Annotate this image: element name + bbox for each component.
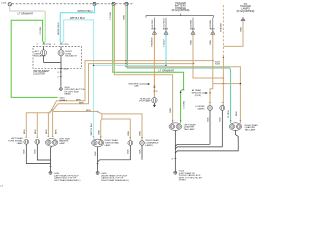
- high mount stoplamp note: [128, 83, 150, 88]
- trailer dashed wire: [222, 5, 224, 57]
- cyan branch wire: [94, 64, 167, 66]
- svg-text:WHT/LT BLU: WHT/LT BLU: [78, 9, 93, 13]
- wire lt grn/wht vertical: [44, 11, 45, 44]
- svg-text:BRN: BRN: [236, 111, 238, 116]
- svg-text:BRN: BRN: [24, 129, 26, 134]
- wire cluster internal: [44, 63, 61, 69]
- middle bulb feed 2: [102, 119, 130, 140]
- wire trailer lamp feed: [223, 21, 243, 46]
- wire brn feed: [125, 5, 127, 66]
- svg-text:S426: S426: [215, 64, 221, 66]
- svg-text:BRN: BRN: [139, 131, 141, 136]
- svg-text:BRN: BRN: [76, 99, 81, 101]
- wire orange HMSL: [153, 34, 155, 97]
- ground wire left oval: [174, 130, 176, 171]
- svg-text:WHT/LT BLU: WHT/LT BLU: [70, 16, 85, 20]
- ground wire license merge 2: [175, 147, 222, 149]
- svg-text:LEFT REARQUARTERTAIL LAMP: LEFT REARQUARTERTAIL LAMP: [184, 123, 196, 131]
- HMSL ground arrow: [153, 103, 156, 107]
- splice triangle S3: [190, 19, 196, 34]
- svg-text:LICENSELAMPS: LICENSELAMPS: [195, 106, 205, 110]
- svg-text:BRN: BRN: [190, 40, 192, 45]
- ground G406: [49, 171, 52, 174]
- svg-text:LT GRN: LT GRN: [40, 26, 42, 34]
- rotated labels mid bulbs: [128, 131, 142, 136]
- wire stub t4: [212, 18, 214, 31]
- junction dots link: [223, 77, 241, 84]
- wire stub t2: [165, 18, 167, 31]
- svg-text:WHT/LT BLU: WHT/LT BLU: [91, 123, 93, 136]
- pin ticks lamp entries: [26, 102, 242, 138]
- bulb mid 1: [128, 141, 133, 146]
- bulb left rear 1: [24, 139, 29, 144]
- svg-text:C126: C126: [1, 3, 7, 5]
- wire lt grn to right tail: [128, 5, 231, 123]
- bulb HIGH MOUNT STOPLAMP: [152, 98, 157, 103]
- svg-text:BLK: BLK: [24, 149, 26, 154]
- connector symbol on rail at x=126.5: [125, 2, 128, 5]
- svg-text:BLK: BLK: [207, 117, 209, 122]
- oval feed 2: [52, 111, 54, 136]
- svg-text:BLK: BLK: [220, 117, 222, 122]
- svg-text:TRAILER: TRAILER: [220, 23, 223, 32]
- wire wht/lt blu inner: [61, 20, 93, 140]
- tan rail C: [126, 67, 240, 124]
- svg-text:LT GRN: LT GRN: [228, 110, 230, 118]
- ground wire license merge 1: [175, 144, 210, 146]
- svg-text:BRN: BRN: [170, 108, 172, 113]
- wire stub t3: [192, 18, 194, 31]
- wire tan cross link: [213, 83, 240, 85]
- svg-text:BRN: BRN: [123, 15, 125, 20]
- bulb RIGHT TURN INDICATOR: [58, 47, 64, 63]
- wire lt grn branch: [11, 20, 57, 97]
- connector C220 left: [37, 44, 52, 46]
- bulb mid 2: [140, 141, 145, 146]
- leader wire from left connector: [10, 6, 45, 11]
- svg-text:140 ORG: 140 ORG: [152, 19, 154, 28]
- junction dot dashed: [223, 57, 225, 59]
- splice tick: [58, 72, 62, 74]
- connector symbol on rail at x=94.5: [93, 2, 96, 5]
- rotated BLK labels left: [24, 149, 37, 154]
- svg-text:BLK: BLK: [35, 149, 37, 154]
- splice triangle S5: [241, 17, 245, 20]
- trailer bracket: [146, 14, 214, 18]
- middle oval feeds: [98, 112, 102, 140]
- svg-text:BRN: BRN: [210, 40, 212, 45]
- wire lt blu t2: [165, 34, 167, 65]
- tick on license wire: [209, 92, 211, 94]
- svg-text:LT BLU: LT BLU: [163, 39, 165, 47]
- bulb LEFT TURN INDICATOR: [41, 47, 47, 63]
- connector C220 right: [54, 44, 69, 46]
- trailer solid wire: [222, 57, 224, 105]
- wire tan t3 license feed: [193, 34, 223, 78]
- rotated labels mid oval: [91, 123, 100, 136]
- license ground wires: [210, 110, 222, 146]
- wire wht/lt blu outer: [60, 5, 94, 43]
- rotated BLK labels mid: [95, 149, 141, 156]
- wire cluster ground: [60, 69, 62, 87]
- svg-text:WHT/LT BLU: WHT/LT BLU: [58, 22, 60, 35]
- rotated labels left lamps: [24, 129, 57, 134]
- middle bulb feed 1: [102, 114, 142, 140]
- oval feed 1: [48, 111, 50, 136]
- svg-text:BRN: BRN: [46, 129, 48, 134]
- wire brn to left tail: [114, 5, 172, 123]
- left combo oval lamp: [46, 139, 58, 147]
- junction dots rails: [125, 60, 213, 67]
- svg-text:C220: C220: [63, 69, 69, 71]
- wire tan t4 license feed: [210, 34, 213, 105]
- splice tick mid ground: [97, 163, 99, 165]
- distribution wire: [26, 110, 52, 137]
- svg-text:LT GRN: LT GRN: [184, 100, 186, 108]
- svg-text:BRN: BRN: [98, 130, 100, 135]
- svg-text:BLK: BLK: [128, 149, 130, 154]
- svg-text:BLK: BLK: [95, 151, 97, 156]
- ground G400: [59, 88, 62, 91]
- connector symbol on rail (left): [8, 2, 11, 5]
- svg-text:LT GRN/WHT: LT GRN/WHT: [159, 68, 175, 72]
- svg-text:141 BRN: 141 BRN: [190, 19, 192, 28]
- svg-text:C220: C220: [46, 44, 52, 46]
- splice triangle S2: [163, 18, 169, 34]
- splice tick left ground: [50, 165, 52, 167]
- rotated BLK labels license: [207, 117, 221, 122]
- bulb left rear 2: [35, 139, 40, 144]
- svg-text:RED/BLK: RED/BLK: [152, 37, 154, 47]
- top dashed rail: [12, 3, 134, 5]
- connector symbol on rail at x=113.5: [112, 2, 115, 5]
- splice triangle S4: [210, 19, 216, 34]
- svg-text:57 LT BLU: 57 LT BLU: [163, 18, 165, 28]
- wire lt grn to left tail: [113, 5, 184, 123]
- svg-text:C220: C220: [63, 44, 69, 46]
- left rear quarter tail lamp: [169, 123, 182, 131]
- ground G409: [96, 171, 99, 174]
- stack labels: [76, 99, 91, 112]
- svg-text:BRN: BRN: [240, 27, 242, 32]
- splice dot green: [180, 90, 185, 94]
- svg-text:LT GRN: LT GRN: [110, 11, 112, 19]
- svg-text:LT GRN/WHT: LT GRN/WHT: [18, 11, 34, 15]
- tan rail A: [52, 61, 213, 110]
- svg-text:BRN: BRN: [55, 129, 57, 134]
- pin tick: [58, 77, 62, 79]
- svg-text:BRN: BRN: [35, 129, 37, 134]
- instrument cluster dashed box: [33, 47, 82, 69]
- bulb license 1: [208, 105, 213, 110]
- tan rail B: [53, 64, 194, 111]
- right rear quarter tail lamp: [229, 123, 242, 131]
- svg-text:BLK: BLK: [139, 149, 141, 154]
- splice text at rail A junction: [215, 62, 221, 66]
- splice triangle S1: [151, 19, 157, 34]
- splice tick orange: [153, 91, 158, 93]
- ground wire right oval: [175, 130, 238, 153]
- right combo oval lamp: [92, 139, 104, 147]
- fan junction dots: [51, 109, 98, 112]
- splice tick right ground: [172, 158, 177, 160]
- svg-text:HI-MOUNTSTOPLAMP: HI-MOUNTSTOPLAMP: [139, 98, 151, 102]
- fan wire 3: [52, 110, 98, 111]
- ground wires mid cluster: [98, 145, 142, 171]
- svg-text:BRN: BRN: [128, 131, 130, 136]
- svg-text:141 BRN: 141 BRN: [210, 19, 212, 28]
- connector C220 bottom: [55, 69, 69, 71]
- svg-text:BRN: BRN: [79, 102, 84, 104]
- ground wires left cluster: [26, 144, 51, 171]
- ground G410: [174, 171, 177, 174]
- junction dots cyan: [93, 65, 167, 66]
- bulb license 2: [220, 105, 225, 110]
- connector tick orange: [153, 86, 155, 87]
- wire stub t1: [153, 18, 155, 31]
- at rear window note: [192, 89, 208, 97]
